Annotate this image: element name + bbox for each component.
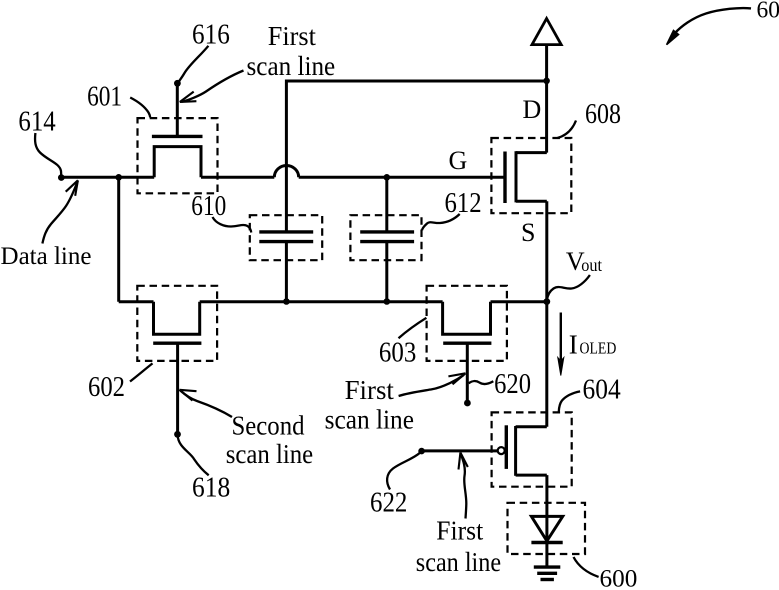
svg-text:604: 604: [583, 373, 622, 405]
transistor 604 channel: [514, 426, 517, 476]
node: Vout: [543, 298, 550, 305]
node: 618 dot: [174, 431, 181, 438]
wire: 604 gate wire: [421, 449, 497, 452]
leader 601: [130, 98, 150, 118]
junction: cap 612 bottom: [384, 298, 391, 305]
node: 620 dot: [464, 400, 471, 407]
transistor 604 gate circle: [498, 447, 505, 454]
dashed box 603: [427, 286, 507, 361]
transistor 608 source connect: [516, 200, 547, 203]
svg-text:D: D: [523, 95, 542, 124]
leader arrow first scan line (top): [180, 71, 244, 103]
transistor 604 drain connect: [516, 425, 547, 428]
dashed box 608: [491, 138, 571, 213]
leader 614: [35, 133, 61, 177]
dashed box 610: [250, 215, 322, 260]
leader 602: [130, 363, 153, 381]
svg-text:scan line: scan line: [325, 403, 414, 434]
svg-text:603: 603: [379, 336, 416, 368]
svg-text:Data line: Data line: [1, 241, 92, 270]
wire: Vout node to Q604 drain: [545, 302, 548, 427]
leader arrow data line: [42, 180, 78, 243]
wire: 603 gate lead: [466, 343, 469, 403]
wire: data line vertical drop: [117, 177, 120, 301]
leader 608: [558, 121, 577, 139]
svg-text:Second: Second: [232, 410, 305, 441]
wire: 601 gate lead: [176, 83, 179, 136]
transistor 608 gate bar: [503, 152, 506, 204]
junction node: top rail tee: [543, 78, 550, 85]
dashed box 602: [137, 286, 217, 361]
svg-text:622: 622: [370, 486, 407, 518]
wire: Q608 source to Vout node: [545, 201, 548, 302]
transistor 604 gate bar: [505, 425, 508, 469]
node: 622 dot: [418, 448, 425, 455]
svg-text:G: G: [449, 146, 468, 175]
leader 610: [213, 217, 252, 233]
leader 603: [399, 318, 427, 338]
leader arrow first scan line (620): [399, 373, 466, 396]
svg-text:620: 620: [494, 368, 531, 400]
dashed box 604: [492, 412, 572, 486]
wire: power rail vertical (triangle to Q608 drain): [545, 45, 548, 153]
svg-text:First: First: [345, 374, 395, 405]
leader 620 squiggle: [469, 381, 494, 384]
leader 622: [387, 453, 420, 490]
svg-text:OLED: OLED: [580, 338, 617, 357]
wire: bottom rail left (data drop to Q602): [119, 300, 154, 303]
wire: bottom rail middle (Q602 to Q603): [200, 300, 443, 303]
wire: gate node horizontal (hump to Q608 gate): [299, 176, 505, 179]
transistor 602 channel: [154, 302, 200, 335]
leader 618: [178, 435, 209, 475]
node: data line end dot: [58, 174, 65, 181]
svg-text:scan line: scan line: [247, 50, 336, 81]
svg-text:618: 618: [192, 471, 230, 503]
svg-text:First: First: [436, 515, 483, 546]
node: 616 gate lead dot: [174, 80, 181, 87]
svg-text:First: First: [268, 20, 316, 51]
leader 616: [178, 46, 208, 83]
wire: Q604 source to OLED: [545, 475, 548, 542]
svg-text:616: 616: [192, 18, 230, 50]
wire: data line horizontal left segment: [61, 176, 154, 179]
wire: cap 612 upper branch: [385, 177, 388, 232]
wire: crossover hump: [274, 166, 298, 178]
wire: cap 612 lower branch: [385, 242, 388, 302]
svg-text:I: I: [569, 329, 578, 359]
leader arrow second scan line: [179, 390, 232, 417]
transistor 604 source connect: [516, 474, 547, 477]
transistor 601 gate bar: [152, 135, 203, 138]
wire: bottom rail right (Q603 to Vout node): [491, 300, 547, 303]
junction: cap 610 bottom: [283, 298, 290, 305]
wire: OLED cathode to ground: [545, 543, 548, 567]
transistor 603 channel: [443, 302, 491, 335]
leader 600: [574, 557, 599, 577]
wire: 602 gate lead: [176, 343, 179, 434]
svg-text:614: 614: [18, 106, 56, 138]
leader 604: [559, 391, 580, 411]
wire: top horizontal rail and cap 610 upper branch: [286, 81, 546, 232]
wire: cap 610 lower branch: [285, 242, 288, 302]
transistor 608 channel: [515, 151, 518, 202]
svg-text:600: 600: [600, 565, 638, 590]
IOLED current arrow: [558, 313, 564, 376]
svg-text:608: 608: [585, 98, 621, 130]
junction: cap 612 top: [384, 174, 391, 181]
capacitor 612 plates: [360, 232, 414, 242]
svg-text:scan line: scan line: [416, 546, 501, 577]
svg-text:60: 60: [757, 0, 779, 23]
svg-text:scan line: scan line: [226, 438, 314, 469]
leader arrow for 60: [667, 8, 751, 45]
capacitor 610 plates: [259, 232, 313, 242]
svg-text:602: 602: [88, 371, 125, 403]
dashed box 600: [508, 503, 586, 554]
dashed box 612: [350, 215, 421, 260]
power supply symbol: [532, 19, 561, 45]
svg-text:610: 610: [191, 190, 226, 222]
junction: data line / vertical drop: [115, 174, 122, 181]
leader Vout: [547, 275, 590, 301]
leader 612: [422, 214, 460, 230]
transistor 601 channel: [154, 147, 201, 178]
dashed box 601: [138, 118, 218, 193]
svg-text:601: 601: [87, 81, 122, 113]
transistor 603 gate bar: [443, 342, 491, 345]
transistor 602 gate bar: [153, 342, 201, 345]
svg-text:S: S: [521, 218, 535, 247]
ground: [534, 567, 561, 579]
OLED diode 600: [531, 516, 562, 542]
leader arrow first scan line (622): [459, 453, 468, 519]
svg-text:out: out: [581, 255, 602, 275]
wire: gate node horizontal (601 to hump): [201, 176, 274, 179]
transistor 608 drain connect: [516, 151, 547, 154]
svg-text:612: 612: [445, 187, 482, 219]
